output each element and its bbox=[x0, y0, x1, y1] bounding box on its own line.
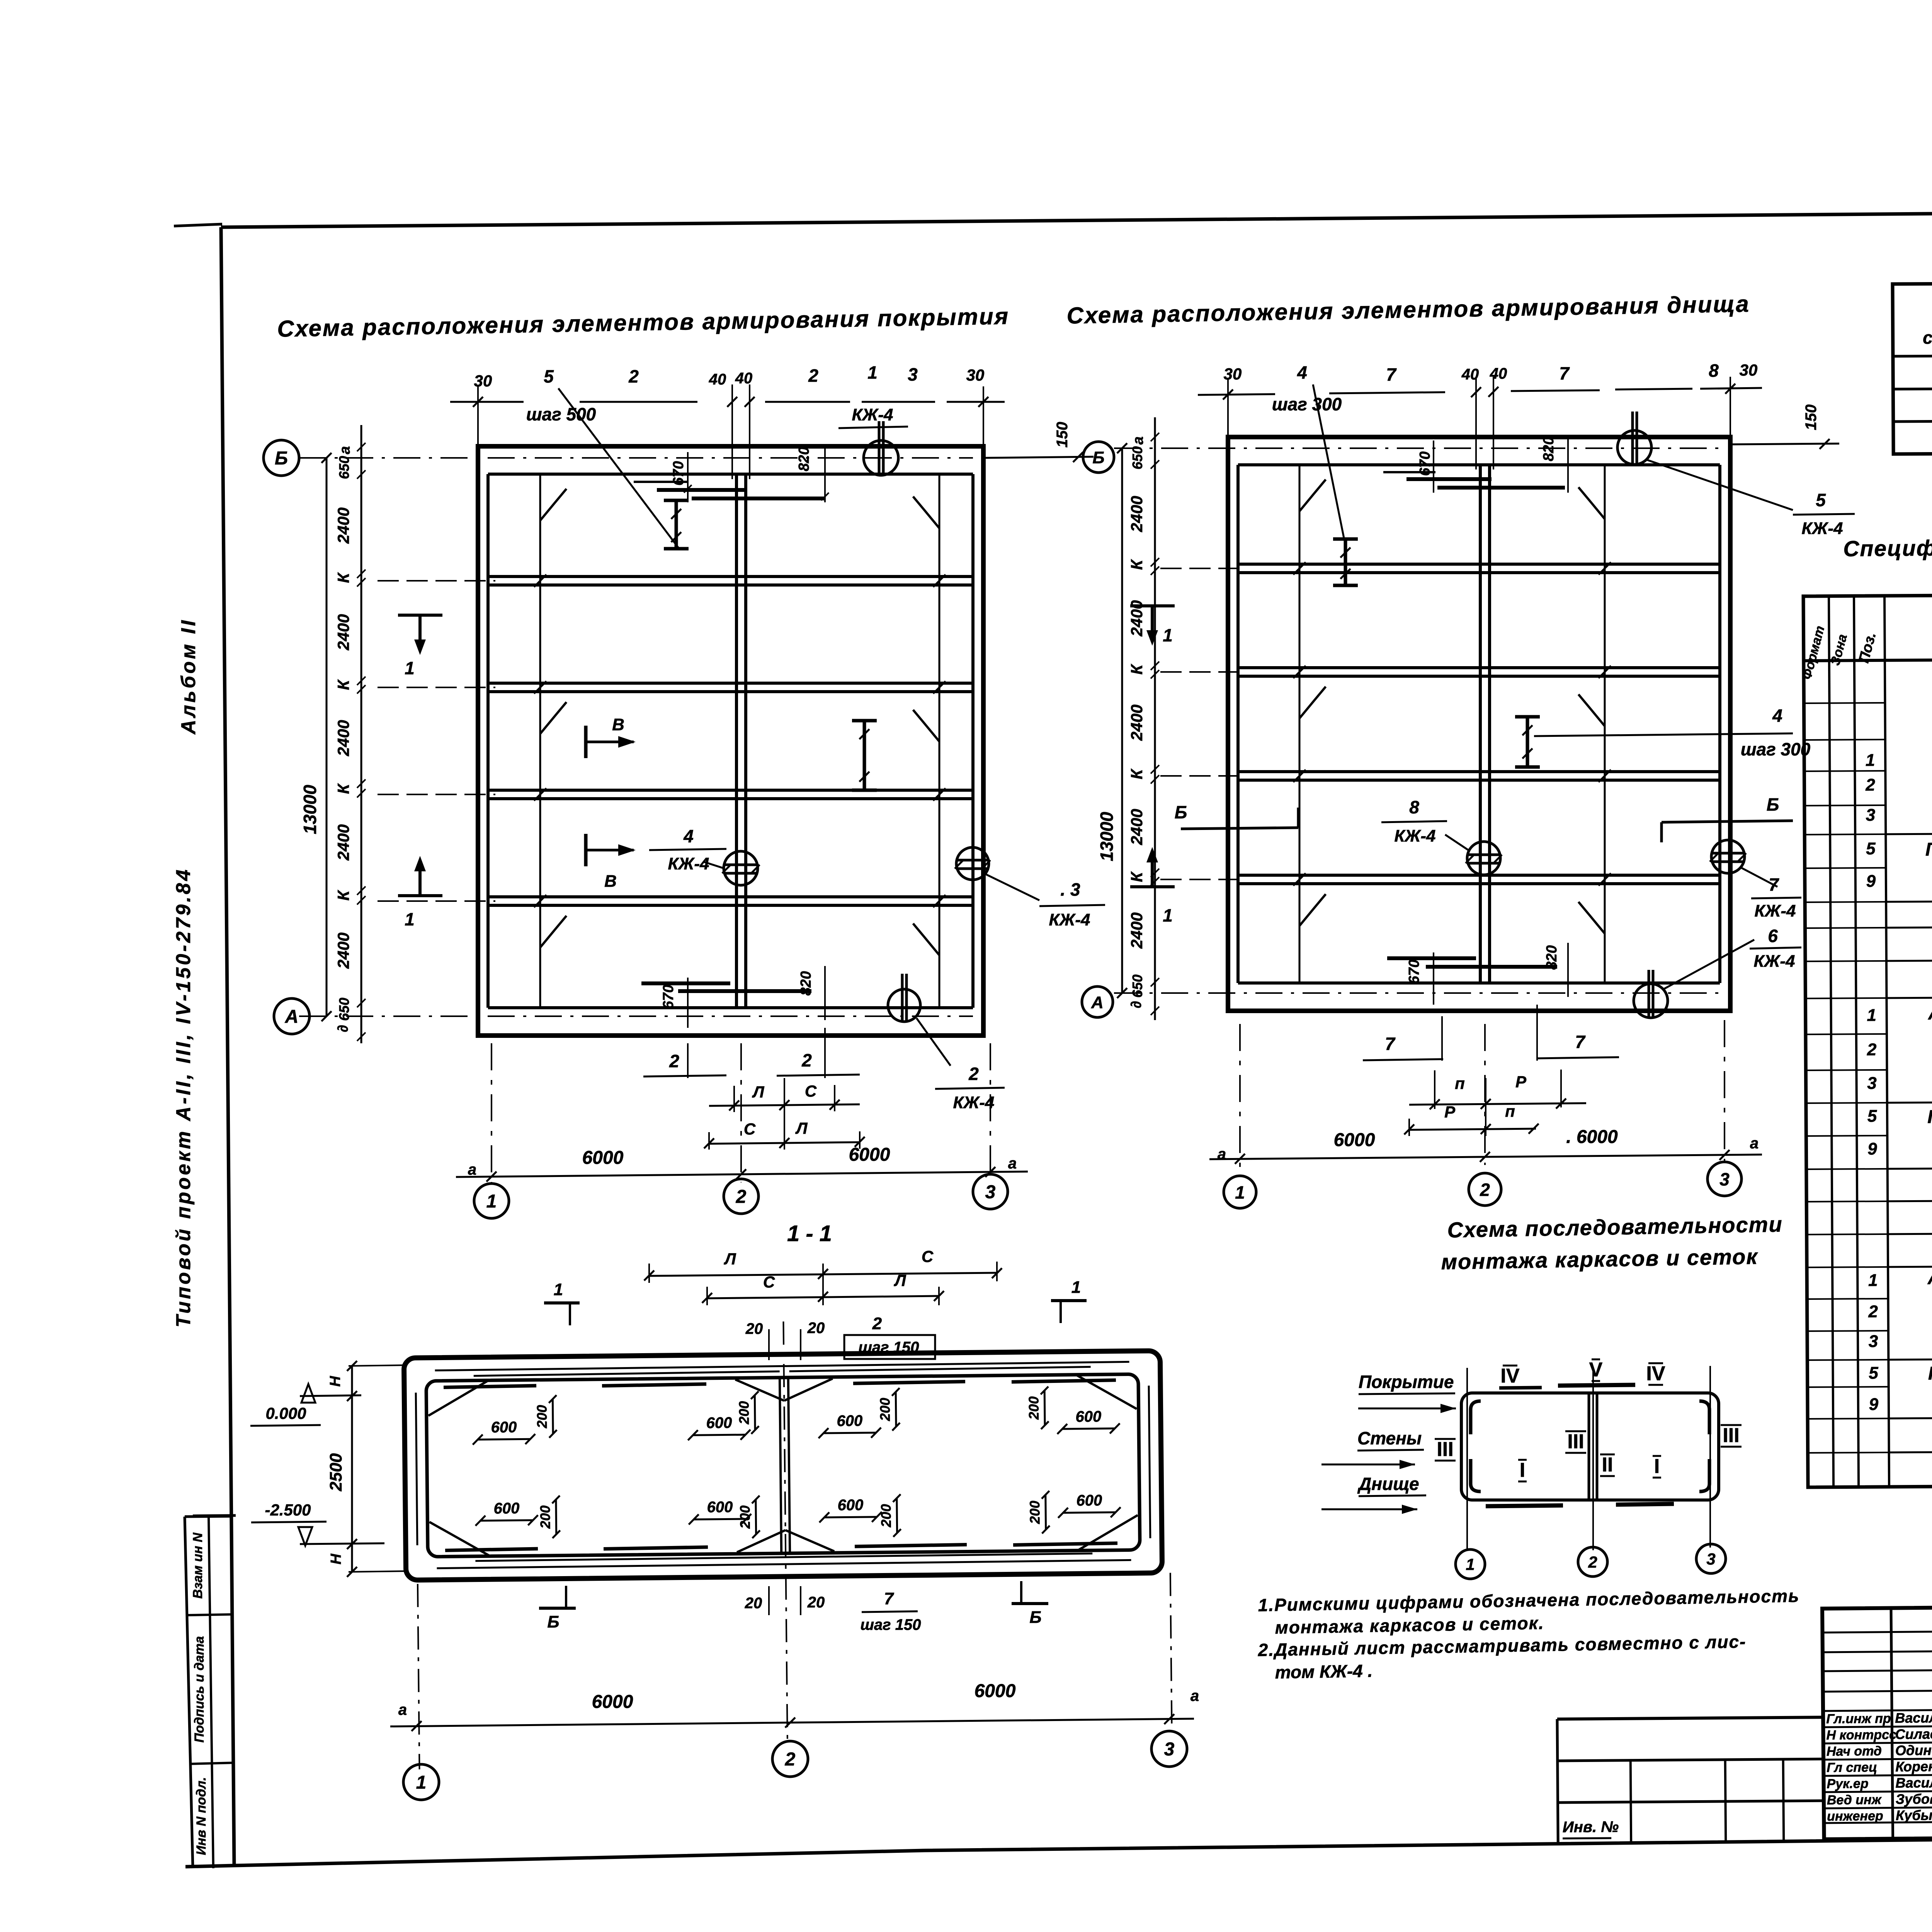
svg-text:7: 7 bbox=[1769, 874, 1779, 895]
svg-text:1: 1 bbox=[1466, 1555, 1475, 1573]
svg-text:а: а bbox=[1130, 436, 1146, 444]
Б flag left inside mid plan bbox=[1181, 828, 1298, 829]
wall axes dash-dot bbox=[418, 1584, 420, 1769]
svg-text:1: 1 bbox=[554, 1280, 563, 1299]
svg-text:40: 40 bbox=[709, 371, 726, 388]
flat cage lines in bays bbox=[1299, 465, 1301, 983]
svg-text:Днище: Днище bbox=[1357, 1474, 1419, 1494]
svg-text:инженер: инженер bbox=[1827, 1809, 1883, 1824]
svg-text:шаг 300: шаг 300 bbox=[1741, 739, 1811, 759]
axis circle 2 bbox=[724, 1179, 759, 1214]
svg-text:I: I bbox=[1654, 1455, 1660, 1478]
svg-text:650: 650 bbox=[1129, 975, 1145, 998]
class of structure table bbox=[1893, 281, 1932, 454]
svg-text:13000: 13000 bbox=[1097, 812, 1117, 861]
svg-text:С: С bbox=[763, 1273, 775, 1291]
svg-text:IV: IV bbox=[1646, 1362, 1665, 1385]
svg-text:1: 1 bbox=[416, 1772, 427, 1793]
svg-text:2400: 2400 bbox=[1128, 600, 1146, 636]
bottom 6000 dims of section bbox=[390, 1719, 1194, 1726]
svg-text:6000: 6000 bbox=[1334, 1130, 1375, 1150]
plan inner wall faces bbox=[488, 473, 973, 476]
embedded sleeve bars top center bbox=[657, 488, 746, 492]
svg-text:3: 3 bbox=[1706, 1550, 1715, 1568]
svg-text:1: 1 bbox=[1235, 1182, 1245, 1202]
svg-text:200: 200 bbox=[1026, 1396, 1042, 1420]
svg-text:1: 1 bbox=[405, 658, 415, 678]
section inner face bbox=[426, 1374, 1140, 1557]
svg-text:6: 6 bbox=[1768, 926, 1778, 946]
top 200 dims bbox=[552, 1399, 554, 1434]
axis circle 1 bbox=[474, 1184, 509, 1218]
bottom slab reinforcement bars bbox=[437, 1560, 1131, 1568]
svg-text:КЖ-4: КЖ-4 bbox=[852, 405, 893, 424]
svg-text:0.000: 0.000 bbox=[265, 1404, 306, 1422]
corner bracket marks bbox=[1471, 1401, 1481, 1434]
svg-text:КЖ-4: КЖ-4 bbox=[1802, 519, 1843, 538]
svg-text:6000: 6000 bbox=[582, 1148, 624, 1168]
svg-text:С: С bbox=[805, 1082, 817, 1100]
crossing tick marks on beams bbox=[534, 575, 546, 587]
left margin stamp strip bbox=[185, 1515, 236, 1868]
section В flag lower bbox=[586, 834, 636, 891]
svg-text:Н: Н bbox=[328, 1553, 344, 1565]
svg-text:200: 200 bbox=[878, 1504, 894, 1527]
axis circle А (mid) bbox=[1082, 986, 1113, 1017]
4 шаг300 label right middle bbox=[1534, 733, 1793, 736]
svg-text:2: 2 bbox=[968, 1064, 979, 1084]
150 dimension right of left plan bbox=[983, 457, 1094, 458]
svg-text:III: III bbox=[1437, 1438, 1453, 1461]
axis circle 3 (mid) bbox=[1708, 1162, 1742, 1196]
svg-text:В: В bbox=[612, 715, 624, 734]
svg-text:5: 5 bbox=[1869, 1364, 1878, 1383]
svg-text:820: 820 bbox=[798, 971, 814, 995]
svg-text:13000: 13000 bbox=[300, 785, 320, 834]
corner diagonal bars bbox=[428, 1381, 488, 1415]
svg-text:20: 20 bbox=[807, 1320, 825, 1337]
svg-text:КЖ-4: КЖ-4 bbox=[1755, 901, 1796, 920]
svg-text:1: 1 bbox=[1867, 1006, 1876, 1025]
top slab reinforcement bars bbox=[435, 1362, 1129, 1370]
svg-text:Покрытие: Покрытие bbox=[1359, 1372, 1454, 1392]
svg-text:Б: Б bbox=[1175, 802, 1187, 822]
svg-text:Р: Р bbox=[1444, 1103, 1456, 1121]
svg-text:Н: Н bbox=[327, 1376, 344, 1387]
section flags Б bottom bbox=[539, 1607, 576, 1610]
floor beam double lines bbox=[488, 575, 973, 578]
svg-text:ГОСТ 5781- 82: ГОСТ 5781- 82 bbox=[1928, 1363, 1932, 1384]
svg-text:∂: ∂ bbox=[335, 1025, 351, 1032]
marker circle pos.4 on axis 2 bbox=[724, 851, 758, 885]
axis circle Б bbox=[264, 440, 299, 476]
flat cage thick dashes bottom bbox=[445, 1549, 538, 1550]
svg-text:Подпись и дата: Подпись и дата bbox=[192, 1636, 207, 1743]
svg-text:шаг 300: шаг 300 bbox=[1272, 394, 1342, 414]
MIDDLE PLAN (bottom slab reinforcement scheme) bbox=[1082, 361, 1855, 1208]
svg-text:п: п bbox=[1505, 1102, 1515, 1120]
svg-text:Вед инж: Вед инж bbox=[1827, 1793, 1882, 1808]
left vertical dimension 2500 bbox=[351, 1366, 353, 1572]
svg-text:Б: Б bbox=[1029, 1608, 1041, 1627]
svg-text:1: 1 bbox=[405, 909, 415, 929]
svg-text:4: 4 bbox=[1772, 706, 1782, 726]
lower reference lines 2 bbox=[687, 1043, 689, 1078]
svg-text:Альбом III: Альбом III bbox=[1928, 1003, 1932, 1024]
row dimension line with segment labels bbox=[361, 425, 362, 1043]
svg-text:К: К bbox=[1128, 663, 1146, 675]
svg-text:30: 30 bbox=[966, 366, 985, 384]
svg-text:К: К bbox=[1128, 559, 1146, 570]
svg-text:Кубышкина: Кубышкина bbox=[1896, 1807, 1932, 1823]
axis circles montage bbox=[1456, 1549, 1485, 1579]
svg-text:650: 650 bbox=[336, 456, 352, 479]
axis circle 2 section bbox=[772, 1741, 808, 1777]
specification table bbox=[1799, 592, 1932, 1487]
svg-text:С: С bbox=[922, 1247, 934, 1265]
space cage symbol I (mid plan cell1) bbox=[1344, 539, 1347, 585]
svg-text:шаг 150: шаг 150 bbox=[858, 1339, 919, 1356]
flat cage thick dashes top bbox=[444, 1386, 536, 1387]
svg-text:. 3: . 3 bbox=[1060, 879, 1080, 900]
svg-text:1: 1 bbox=[486, 1191, 497, 1212]
svg-text:600: 600 bbox=[1075, 1408, 1101, 1425]
axis circle 1 section bbox=[403, 1764, 439, 1800]
TITLE BLOCK (штамп) bbox=[1822, 1603, 1932, 1839]
svg-text:20: 20 bbox=[745, 1320, 763, 1337]
svg-text:1 - 1: 1 - 1 bbox=[787, 1221, 832, 1246]
svg-text:Зубова: Зубова bbox=[1896, 1791, 1932, 1807]
title block left appendix bbox=[1557, 1717, 1823, 1843]
space cage symbol I (cell 1) bbox=[675, 500, 678, 549]
bottom 600 dims bbox=[480, 1520, 533, 1520]
mesh bars bbox=[1558, 1385, 1635, 1386]
axis stems bbox=[1466, 1368, 1468, 1549]
plan outer walls bbox=[478, 446, 983, 1036]
marker circle top right of mid plan (pos.5) bbox=[1617, 430, 1651, 464]
svg-text:шаг 500: шаг 500 bbox=[526, 404, 596, 424]
svg-text:2400: 2400 bbox=[1128, 809, 1146, 845]
svg-text:2400: 2400 bbox=[1128, 912, 1146, 949]
svg-text:2: 2 bbox=[1865, 776, 1875, 794]
svg-text:К: К bbox=[1128, 871, 1146, 882]
center axis dash-dot bbox=[783, 1321, 787, 1741]
Л С dimension row 1 bbox=[733, 1086, 735, 1112]
svg-text:Альбом III: Альбом III bbox=[1927, 1267, 1932, 1288]
svg-text:670: 670 bbox=[1406, 959, 1422, 984]
bent-bar hooks bbox=[1299, 480, 1326, 511]
wall vertical bars bbox=[416, 1393, 417, 1545]
marker circle pos.2 bottom bbox=[888, 989, 920, 1022]
svg-text:2: 2 bbox=[669, 1051, 679, 1071]
svg-text:200: 200 bbox=[534, 1405, 550, 1429]
svg-text:600: 600 bbox=[1076, 1492, 1102, 1509]
svg-text:200: 200 bbox=[877, 1398, 893, 1421]
section outer outline bbox=[404, 1351, 1162, 1580]
svg-text:150: 150 bbox=[1803, 405, 1820, 430]
svg-text:Б: Б bbox=[547, 1612, 559, 1631]
svg-text:2400: 2400 bbox=[1128, 496, 1146, 532]
upper ladder rows bbox=[1822, 1630, 1932, 1633]
svg-text:670: 670 bbox=[660, 985, 677, 1009]
svg-text:сооружения: сооружения bbox=[1923, 327, 1932, 347]
flat cage lines in bays bbox=[539, 474, 541, 1008]
svg-text:8: 8 bbox=[1409, 797, 1419, 817]
montage sequence scheme bbox=[1321, 1359, 1742, 1579]
svg-text:К: К bbox=[334, 679, 352, 690]
svg-text:650: 650 bbox=[1129, 446, 1145, 469]
LEFT PLAN (cover reinforcement scheme) bbox=[264, 362, 1175, 1218]
13000 dimension line (mid plan) bbox=[1121, 448, 1123, 993]
svg-text:200: 200 bbox=[736, 1401, 752, 1425]
section 1 flag right bbox=[1130, 606, 1175, 646]
marker circle pos.3 right wall bbox=[956, 847, 989, 880]
svg-text:670: 670 bbox=[670, 461, 687, 485]
section 1 flag bottom-left bbox=[398, 856, 442, 929]
svg-text:5: 5 bbox=[544, 366, 554, 386]
svg-text:КЖ-4: КЖ-4 bbox=[1049, 910, 1090, 929]
svg-text:40: 40 bbox=[1461, 366, 1479, 383]
svg-text:Альбом II: Альбом II bbox=[177, 618, 200, 735]
svg-text:7: 7 bbox=[1386, 364, 1397, 384]
svg-text:Л: Л bbox=[752, 1083, 765, 1101]
svg-text:Н контрсс: Н контрсс bbox=[1826, 1728, 1896, 1743]
svg-text:2: 2 bbox=[785, 1749, 796, 1770]
svg-text:2: 2 bbox=[808, 366, 818, 386]
left elevation marks bbox=[250, 1384, 384, 1546]
axis circle 3 section bbox=[1151, 1731, 1187, 1767]
svg-text:30: 30 bbox=[1740, 361, 1758, 379]
svg-text:II: II bbox=[1602, 1454, 1613, 1476]
svg-text:9: 9 bbox=[1867, 1139, 1877, 1158]
svg-text:3: 3 bbox=[1164, 1739, 1175, 1760]
space cage symbol I (cell 3-4 right bay) bbox=[863, 721, 866, 790]
п Р dimension row 1 (mid) bbox=[1434, 1070, 1435, 1109]
svg-text:III: III bbox=[1723, 1424, 1739, 1447]
svg-text:2400: 2400 bbox=[334, 932, 352, 969]
svg-text:V: V bbox=[1589, 1359, 1603, 1381]
svg-text:Рук.ер: Рук.ер bbox=[1827, 1776, 1868, 1791]
section 1 flag bottom-right bbox=[1130, 847, 1175, 925]
marker circle pos.6 (bottom right mid plan) bbox=[1634, 984, 1668, 1018]
bent-bar hooks bbox=[540, 489, 566, 520]
svg-text:40: 40 bbox=[1490, 365, 1507, 382]
center column with braces bbox=[780, 1378, 781, 1553]
svg-text:200: 200 bbox=[537, 1505, 553, 1529]
svg-text:2400: 2400 bbox=[334, 614, 352, 650]
svg-text:820: 820 bbox=[796, 447, 812, 471]
svg-text:Васильева: Васильева bbox=[1895, 1774, 1932, 1791]
space cage symbol I (mid plan cell4) bbox=[1526, 717, 1529, 767]
svg-text:Инв. №: Инв. № bbox=[1563, 1818, 1619, 1836]
svg-text:КЖ-4: КЖ-4 bbox=[1395, 827, 1436, 845]
svg-text:3: 3 bbox=[1867, 1074, 1877, 1093]
SECTION 1-1 drawing bbox=[403, 1318, 1172, 1769]
svg-text:Стены: Стены bbox=[1357, 1428, 1422, 1448]
svg-text:Кореневский: Кореневский bbox=[1895, 1758, 1932, 1775]
svg-text:Васильев: Васильев bbox=[1895, 1709, 1932, 1726]
svg-text:ГОСТ 5781- 82: ГОСТ 5781- 82 bbox=[1925, 839, 1932, 860]
svg-text:20: 20 bbox=[745, 1595, 762, 1612]
svg-text:а: а bbox=[1190, 1687, 1199, 1704]
embedded sleeve bars top center (mid) bbox=[1406, 477, 1492, 481]
svg-text:1: 1 bbox=[1866, 751, 1875, 770]
bottom 200 dims bbox=[555, 1500, 557, 1534]
axis circle 2 (mid) bbox=[1469, 1173, 1501, 1206]
svg-text:200: 200 bbox=[1027, 1501, 1043, 1524]
svg-text:I: I bbox=[1520, 1459, 1525, 1481]
svg-text:6000: 6000 bbox=[849, 1145, 890, 1165]
svg-text:А: А bbox=[285, 1007, 299, 1027]
svg-text:2400: 2400 bbox=[334, 507, 352, 544]
svg-text:20: 20 bbox=[807, 1594, 825, 1611]
svg-text:К: К bbox=[334, 572, 352, 583]
svg-text:Типовой проект А-II, III, IV: Типовой проект А-II, III, IV-150-279.84 bbox=[172, 867, 195, 1328]
axis dash-dot lines bbox=[299, 457, 973, 459]
svg-text:5: 5 bbox=[1867, 1107, 1877, 1126]
marker circle on top band (pos.1) bbox=[864, 440, 898, 475]
svg-text:3: 3 bbox=[1866, 806, 1876, 825]
svg-text:2: 2 bbox=[872, 1314, 882, 1333]
axis circle 1 (mid) bbox=[1224, 1176, 1256, 1208]
top dimension line of middle plan bbox=[1198, 361, 1762, 538]
svg-text:9: 9 bbox=[1866, 872, 1876, 891]
svg-text:2: 2 bbox=[1480, 1180, 1490, 1200]
sheet frame bbox=[174, 209, 1932, 1867]
svg-text:7: 7 bbox=[884, 1589, 895, 1608]
top dimension line of left plan bbox=[450, 362, 1005, 548]
svg-text:150: 150 bbox=[1054, 422, 1071, 448]
svg-text:820: 820 bbox=[1544, 945, 1560, 969]
central beam on axis 2 (double line) bbox=[1479, 465, 1482, 983]
svg-text:Р: Р bbox=[1515, 1073, 1527, 1091]
svg-text:5: 5 bbox=[1866, 839, 1876, 858]
svg-text:820: 820 bbox=[1541, 437, 1557, 461]
svg-text:7: 7 bbox=[1575, 1032, 1586, 1052]
floor beam double lines bbox=[1238, 563, 1720, 566]
svg-text:ГОСТ 5781-82: ГОСТ 5781-82 bbox=[1927, 1106, 1932, 1128]
svg-text:А: А bbox=[1091, 993, 1104, 1012]
axis dash-dot lines bbox=[1114, 447, 1720, 449]
svg-text:2: 2 bbox=[1867, 1040, 1877, 1059]
svg-text:600: 600 bbox=[707, 1498, 733, 1516]
svg-text:650: 650 bbox=[336, 998, 352, 1021]
svg-text:600: 600 bbox=[493, 1500, 519, 1517]
lower reference 7 dims (mid) bbox=[1441, 1016, 1443, 1061]
svg-text:том КЖ-4 .: том КЖ-4 . bbox=[1275, 1661, 1372, 1682]
svg-text:600: 600 bbox=[706, 1414, 732, 1432]
svg-text:. 6000: . 6000 bbox=[1566, 1127, 1618, 1147]
section В flag upper bbox=[586, 715, 636, 758]
axis circle А bbox=[274, 998, 310, 1034]
center 20/20 dims and шаг150 labels bbox=[768, 1329, 770, 1360]
svg-text:Нач отд: Нач отд bbox=[1827, 1744, 1882, 1759]
svg-text:200: 200 bbox=[737, 1505, 753, 1529]
svg-text:4: 4 bbox=[1297, 362, 1307, 383]
svg-text:1: 1 bbox=[867, 362, 878, 383]
svg-text:IV: IV bbox=[1500, 1365, 1519, 1387]
svg-text:Гл спец: Гл спец bbox=[1827, 1760, 1877, 1775]
svg-text:К: К bbox=[334, 783, 352, 794]
svg-text:6000: 6000 bbox=[592, 1692, 633, 1712]
section 1 flag left bbox=[398, 615, 442, 678]
svg-text:4: 4 bbox=[683, 826, 694, 846]
svg-text:30: 30 bbox=[474, 372, 492, 390]
svg-text:Б: Б bbox=[1092, 448, 1104, 467]
svg-text:2: 2 bbox=[628, 366, 639, 386]
svg-text:а: а bbox=[1218, 1146, 1226, 1163]
bottom 6000+6000 dimension (mid) bbox=[1209, 1155, 1762, 1159]
svg-text:1: 1 bbox=[1868, 1271, 1878, 1290]
svg-text:3: 3 bbox=[908, 364, 918, 384]
svg-text:1: 1 bbox=[1163, 625, 1173, 645]
svg-text:1: 1 bbox=[1163, 905, 1173, 925]
svg-text:а: а bbox=[1008, 1155, 1017, 1172]
scheme box bbox=[1461, 1393, 1719, 1500]
svg-text:3: 3 bbox=[1719, 1169, 1730, 1189]
svg-text:2400: 2400 bbox=[1128, 704, 1146, 741]
Л С dims above section bbox=[649, 1273, 997, 1276]
plan outer walls bbox=[1228, 437, 1730, 1011]
svg-text:7: 7 bbox=[1559, 363, 1570, 383]
svg-text:670: 670 bbox=[1417, 451, 1433, 476]
150 dimension right of middle plan bbox=[1730, 444, 1839, 444]
svg-text:2: 2 bbox=[1868, 1302, 1878, 1321]
svg-text:Силаева: Силаева bbox=[1895, 1726, 1932, 1742]
svg-text:а: а bbox=[337, 446, 353, 454]
13000 dimension line bbox=[326, 458, 328, 1016]
svg-text:2: 2 bbox=[801, 1050, 812, 1070]
svg-text:5: 5 bbox=[1816, 490, 1826, 510]
section flags 1-1 top bbox=[544, 1301, 580, 1304]
svg-text:7: 7 bbox=[1385, 1034, 1396, 1054]
Б flag right of mid plan bbox=[1662, 821, 1793, 822]
svg-text:Л: Л bbox=[724, 1250, 736, 1268]
svg-text:8: 8 bbox=[1709, 361, 1719, 381]
svg-text:∂: ∂ bbox=[1128, 1001, 1145, 1009]
svg-text:600: 600 bbox=[491, 1419, 517, 1436]
svg-text:30: 30 bbox=[1224, 365, 1242, 383]
svg-text:К: К bbox=[334, 889, 352, 901]
svg-text:40: 40 bbox=[735, 370, 753, 387]
svg-text:К: К bbox=[1128, 768, 1146, 779]
signature rows bbox=[1823, 1725, 1932, 1727]
plan inner wall faces bbox=[1238, 463, 1720, 466]
svg-text:-2.500: -2.500 bbox=[265, 1501, 311, 1519]
svg-text:Гл.инж пр: Гл.инж пр bbox=[1826, 1711, 1891, 1726]
svg-text:III: III bbox=[1567, 1430, 1584, 1453]
svg-text:КЖ-4: КЖ-4 bbox=[953, 1093, 995, 1112]
svg-text:а: а bbox=[1750, 1135, 1759, 1152]
svg-text:С: С bbox=[744, 1120, 756, 1138]
svg-text:шаг 150: шаг 150 bbox=[860, 1616, 921, 1633]
svg-text:2: 2 bbox=[736, 1187, 747, 1207]
title block column lines bbox=[1891, 1608, 1893, 1839]
svg-text:2: 2 bbox=[1588, 1553, 1597, 1571]
top 600 dims bbox=[478, 1439, 530, 1439]
svg-text:В: В bbox=[604, 872, 617, 891]
embedded sleeve bars bottom center bbox=[641, 981, 730, 985]
svg-text:600: 600 bbox=[837, 1412, 862, 1430]
svg-text:3: 3 bbox=[985, 1182, 996, 1202]
svg-text:Одиноков: Одиноков bbox=[1895, 1742, 1932, 1758]
svg-text:КЖ-4: КЖ-4 bbox=[668, 854, 709, 873]
embedded sleeve bars bottom center (mid) bbox=[1387, 956, 1476, 960]
svg-text:9: 9 bbox=[1869, 1395, 1879, 1414]
svg-text:2400: 2400 bbox=[334, 824, 352, 861]
marker circle pos.7 (right wall mid plan) bbox=[1711, 840, 1745, 873]
svg-text:3: 3 bbox=[1869, 1332, 1878, 1351]
